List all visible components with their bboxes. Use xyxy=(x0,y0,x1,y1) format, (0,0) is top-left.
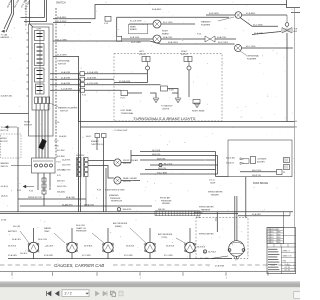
svg-text:40-B GRN: 40-B GRN xyxy=(209,13,219,15)
leader air front xyxy=(176,238,185,243)
svg-text:PRESSURE: PRESSURE xyxy=(110,198,121,200)
wire 40-B GRN into warning flasher xyxy=(206,14,235,16)
wire 43-C GRN diagonal xyxy=(240,18,278,27)
svg-text:30-A ORG: 30-A ORG xyxy=(12,238,21,241)
wire horizontal y21.5 xyxy=(24,21,47,23)
svg-text:4-6-B (4): 4-6-B (4) xyxy=(1,186,9,188)
page right border xyxy=(294,8,296,272)
wire into brake lamp 1 xyxy=(129,23,153,25)
svg-text:30A YEL: 30A YEL xyxy=(158,208,165,211)
svg-text:30-F BLK: 30-F BLK xyxy=(208,251,217,253)
leader oil xyxy=(92,233,104,243)
rear low air switch circle xyxy=(114,177,121,184)
svg-text:30-N BLK: 30-N BLK xyxy=(126,245,135,247)
svg-text:40-A RED: 40-A RED xyxy=(152,8,162,11)
wire into title block xyxy=(282,212,284,228)
svg-text:RIGHT REAR: RIGHT REAR xyxy=(192,110,205,113)
wire vertical x217 xyxy=(216,212,218,232)
svg-text:AIR PRESSURE: AIR PRESSURE xyxy=(158,233,173,236)
svg-text:FLASHER: FLASHER xyxy=(201,23,211,26)
svg-text:30-H ORG: 30-H ORG xyxy=(38,239,47,241)
console left edge pin stubs xyxy=(27,32,29,34)
connector P-MD box xyxy=(121,91,128,96)
wire 40-A RED to top bus xyxy=(53,5,287,19)
svg-text:40-A GRN: 40-A GRN xyxy=(61,82,71,85)
svg-text:WARNING: WARNING xyxy=(201,21,211,24)
svg-text:40-D GRN: 40-D GRN xyxy=(131,42,141,44)
svg-text:41-A GRN: 41-A GRN xyxy=(61,77,71,80)
solid black wedge xyxy=(39,139,47,150)
wire 37B-C BRN xyxy=(140,173,218,175)
gauge G1 circle xyxy=(28,242,38,252)
svg-text:CHART OIL: CHART OIL xyxy=(76,227,86,230)
svg-text:TURNSIGNAL: TURNSIGNAL xyxy=(246,55,260,58)
wire 340-C BLK xyxy=(240,171,277,173)
arrow glyph horn xyxy=(5,126,8,129)
svg-text:60-B 2: 60-B 2 xyxy=(86,136,91,138)
svg-text:WIPER: WIPER xyxy=(1,138,8,140)
connector P-14 boxes column xyxy=(80,72,85,76)
toolbar first-page button xyxy=(47,291,52,296)
wire into brake lamp 2 xyxy=(122,38,153,40)
svg-text:(REAR AIR: (REAR AIR xyxy=(109,194,119,197)
svg-text:47-B GRN: 47-B GRN xyxy=(44,255,53,257)
leader to warning flasher xyxy=(218,17,234,21)
svg-text:(REAR): (REAR) xyxy=(115,225,122,228)
svg-text:SWITCH: SWITCH xyxy=(56,2,66,5)
vertical x106 xyxy=(105,168,107,212)
connector boxes under relay xyxy=(42,178,46,182)
svg-text:BRG: BRG xyxy=(278,240,281,242)
svg-text:FLASHER: FLASHER xyxy=(247,57,257,60)
toolbar page box xyxy=(62,290,89,297)
wire right bus vertical xyxy=(286,33,288,122)
svg-text:WIPER MOTOR: WIPER MOTOR xyxy=(28,197,42,199)
gauge G4 wire from top xyxy=(149,228,151,242)
svg-text:TURNSIGNAL: TURNSIGNAL xyxy=(121,112,135,115)
wire speedo to bus xyxy=(236,256,238,258)
svg-text:30-K BLK: 30-K BLK xyxy=(20,253,28,255)
svg-text:SPEEDOMETER: SPEEDOMETER xyxy=(199,234,214,236)
svg-text:SENDER: SENDER xyxy=(162,203,171,205)
title block outer xyxy=(267,228,296,274)
svg-text:40-A ORG: 40-A ORG xyxy=(168,41,178,44)
svg-text:RIGHT: RIGHT xyxy=(181,51,188,53)
warning flasher circle xyxy=(235,12,242,19)
connector P-14 box on wire xyxy=(105,16,111,21)
wire to lamp box 3 xyxy=(85,84,161,86)
gauge G1 terminals xyxy=(28,243,30,245)
svg-text:SPEEDOMETER: SPEEDOMETER xyxy=(199,207,214,209)
accessory box xyxy=(228,140,292,177)
gauge G5 wire from top xyxy=(189,228,191,242)
wire right lamp down xyxy=(188,70,190,97)
title block middle band xyxy=(267,243,296,245)
wire 43-C ORG out xyxy=(242,47,294,49)
gauge feed bus y258.6 xyxy=(8,258,232,260)
svg-text:4 216324: 4 216324 xyxy=(268,237,274,239)
luggage buzzer box xyxy=(251,157,256,164)
connector sub-box 4 xyxy=(36,84,45,94)
wire 47-B RED out xyxy=(242,14,287,16)
bus wire y121.5 xyxy=(79,121,295,123)
turnsignal splice bowtie xyxy=(282,26,292,33)
svg-text:30-K (M): 30-K (M) xyxy=(13,226,20,228)
small boxes right edge xyxy=(284,158,290,163)
svg-text:340-C BLK: 340-C BLK xyxy=(252,170,262,172)
wire bundle verticals xyxy=(35,110,37,158)
wire out brake lamp 1 xyxy=(161,23,195,25)
gauge G5 inner xyxy=(188,245,193,250)
wire 40-B WHT xyxy=(53,22,91,24)
relay contacts xyxy=(35,164,38,167)
speedo terminal right xyxy=(242,249,245,252)
connector sub-box 3 xyxy=(35,68,45,82)
gauge G1 wire to feed bus xyxy=(33,253,35,259)
wire top right second xyxy=(291,11,300,13)
svg-text:41-D-B GRN: 41-D-B GRN xyxy=(130,21,142,23)
svg-text:HORN: HORN xyxy=(24,122,30,124)
connector column A xyxy=(77,158,82,162)
svg-text:RESERVOIR: RESERVOIR xyxy=(111,201,123,203)
bus wire y127 xyxy=(81,126,295,128)
speedo cable double line xyxy=(234,196,236,241)
svg-text:— TO HIGH LIGHT: — TO HIGH LIGHT xyxy=(112,130,128,132)
svg-text:FLASH SERVICE SUER: FLASH SERVICE SUER xyxy=(105,189,125,192)
ground symbol 2 xyxy=(175,98,181,103)
relay box xyxy=(32,158,56,173)
svg-text:P-23: P-23 xyxy=(29,191,33,193)
leader air rear xyxy=(130,228,146,243)
svg-text:40-B GRN: 40-B GRN xyxy=(130,37,140,39)
connector box small xyxy=(117,36,122,41)
connector P-14 splice X xyxy=(205,36,215,42)
gauge G3 wire from top xyxy=(107,228,109,242)
svg-text:47 (M): 47 (M) xyxy=(1,220,7,222)
vertical x131 xyxy=(130,150,132,163)
svg-text:BRAKE: BRAKE xyxy=(162,32,169,35)
bus wiper y199 xyxy=(18,198,86,200)
svg-text:41-B GRN: 41-B GRN xyxy=(57,55,67,57)
svg-text:HARNESS: HARNESS xyxy=(194,212,203,215)
title block right top cells xyxy=(282,228,284,244)
ground symbol 3 xyxy=(194,103,200,108)
svg-text:3M-B YEL: 3M-B YEL xyxy=(158,168,167,170)
svg-text:43-C ORG: 43-C ORG xyxy=(246,46,256,48)
connector boxes brake throttle xyxy=(95,134,100,138)
harness connector strip xyxy=(155,211,200,216)
svg-text:(TYPE): (TYPE) xyxy=(161,237,168,239)
svg-text:47-F GRN: 47-F GRN xyxy=(124,255,133,257)
svg-text:4-17-A GRN: 4-17-A GRN xyxy=(61,88,72,91)
toolbar gradient band xyxy=(0,282,300,288)
svg-text:ORIG.: ORIG. xyxy=(283,261,288,263)
node Y circle xyxy=(117,208,120,211)
wire horizontal y17.5 xyxy=(21,17,45,19)
gauge G4 inner xyxy=(148,245,153,250)
page bottom border xyxy=(0,270,296,272)
gauge G1 wire from top xyxy=(33,228,35,242)
wire group 47-A GRN xyxy=(50,89,80,91)
wire out brake lamp 2 xyxy=(161,38,205,40)
svg-text:4 216338: 4 216338 xyxy=(268,242,274,244)
svg-text:40-A ORG: 40-A ORG xyxy=(76,154,85,157)
connector arrows xyxy=(240,158,244,165)
svg-text:REAR: REAR xyxy=(130,25,136,28)
svg-text:LIGHTS: LIGHTS xyxy=(162,108,170,110)
svg-text:TEMP: TEMP xyxy=(44,231,50,233)
speedometer inner detail xyxy=(231,242,243,253)
svg-text:2000R: 2000R xyxy=(210,182,216,184)
svg-text:40-C BLK: 40-C BLK xyxy=(57,150,66,152)
svg-text:40-C ORG: 40-C ORG xyxy=(62,170,71,172)
svg-text:4 216317: 4 216317 xyxy=(268,234,274,236)
svg-text:P-27: P-27 xyxy=(55,141,59,143)
speedo terminal left xyxy=(228,249,231,252)
svg-text:D D & L: D D & L xyxy=(209,180,215,182)
right front lamp xyxy=(187,66,191,70)
wire stub y25.5 xyxy=(30,24,34,27)
svg-text:TO BACKUP: TO BACKUP xyxy=(161,105,173,108)
svg-text:LEFT: LEFT xyxy=(37,29,43,31)
svg-text:47-A GRN: 47-A GRN xyxy=(8,254,17,257)
turnsignal flasher circle xyxy=(235,45,242,52)
svg-text:64: 64 xyxy=(295,127,297,129)
wire 3M-B YEL 2 xyxy=(145,169,216,171)
svg-text:40-A RED: 40-A RED xyxy=(57,16,67,19)
stack right verticals xyxy=(216,152,229,177)
svg-text:30-I BLK: 30-I BLK xyxy=(46,245,54,247)
svg-text:60: 60 xyxy=(295,121,297,123)
svg-text:BRAKE 2: BRAKE 2 xyxy=(91,140,99,143)
svg-text:WHEEL : 27: WHEEL : 27 xyxy=(283,251,291,253)
arrow glyph left low xyxy=(23,185,26,188)
svg-text:30B-A YEL: 30B-A YEL xyxy=(123,208,132,211)
svg-text:SWITCH: SWITCH xyxy=(60,110,68,112)
svg-text:HARNESS: HARNESS xyxy=(1,36,10,39)
gauge G2 wire to feed bus xyxy=(71,253,73,259)
gauge G2 terminals xyxy=(67,243,69,245)
wire marker switch xyxy=(11,165,32,167)
svg-text:TO HORN: TO HORN xyxy=(1,127,10,129)
vertical x103.5 xyxy=(103,150,105,212)
front low air switch circle xyxy=(114,159,121,166)
svg-text:P-5R: P-5R xyxy=(169,90,174,92)
wire 3M-H YEL xyxy=(140,159,216,161)
border tick marks xyxy=(11,272,13,276)
svg-text:REAR LOW-AIR: REAR LOW-AIR xyxy=(123,177,137,180)
wire to lamp box 1 xyxy=(85,73,148,75)
wire left y113.5 xyxy=(0,113,29,115)
wire 20-C BLK xyxy=(140,151,216,153)
gauge G3 wire to feed bus xyxy=(107,253,109,259)
connector bottom terminal row xyxy=(35,97,38,104)
svg-text:SENDER: SENDER xyxy=(211,194,220,196)
svg-text:47-A RED: 47-A RED xyxy=(246,12,256,15)
connector pin bars xyxy=(37,33,43,35)
main bus y211.7 xyxy=(0,211,293,213)
gauge G3 inner xyxy=(106,245,111,250)
gauge G5 circle xyxy=(185,242,195,252)
svg-text:P-13: P-13 xyxy=(57,162,61,164)
toolbar prev-page button xyxy=(56,291,60,295)
toolbar snapshot icon xyxy=(111,291,115,295)
svg-text:47-L GRN: 47-L GRN xyxy=(164,255,173,257)
svg-text:BRG: BRG xyxy=(278,237,281,239)
svg-text:608-A (M): 608-A (M) xyxy=(57,191,65,194)
svg-text:40-A (M): 40-A (M) xyxy=(59,135,67,138)
svg-text:GAUGES, CARRIER CAB: GAUGES, CARRIER CAB xyxy=(54,263,104,268)
gauge G1 inner xyxy=(31,245,36,250)
svg-text:2 / 2: 2 / 2 xyxy=(65,292,72,296)
bus vertical x80.5 xyxy=(80,79,82,212)
svg-text:458 : 390: 458 : 390 xyxy=(285,267,291,269)
light switch console outer box xyxy=(29,24,54,136)
svg-text:BUTTON: BUTTON xyxy=(1,130,9,132)
svg-text:SWITCH: SWITCH xyxy=(1,166,9,168)
svg-text:40-A GRN: 40-A GRN xyxy=(61,71,71,74)
svg-text:LUGGAGE: LUGGAGE xyxy=(257,158,267,161)
svg-text:REFERENCE LIST: REFERENCE LIST xyxy=(268,229,280,231)
gauge G2 circle xyxy=(67,242,77,252)
svg-text:43-C GRN: 43-C GRN xyxy=(253,25,263,27)
svg-text:41-D GRN: 41-D GRN xyxy=(57,39,67,41)
svg-text:FRONT: FRONT xyxy=(181,54,189,56)
brake lamp circle 2 xyxy=(153,35,161,43)
wire to lamp box 2 xyxy=(85,78,115,80)
wire column B down xyxy=(85,177,87,207)
wire 4-N-A GRN xyxy=(114,70,148,83)
main bus y213.4 xyxy=(0,212,238,214)
wire group 40-4 GRN xyxy=(50,84,80,86)
wire 47-A GRN right xyxy=(238,215,290,217)
wire group 41-A GRN xyxy=(50,78,80,80)
svg-text:30-M BLK: 30-M BLK xyxy=(84,245,93,247)
svg-text:P-29: P-29 xyxy=(97,190,101,192)
svg-text:605-B ORG: 605-B ORG xyxy=(57,186,67,188)
svg-text:TURNSIGNAL: TURNSIGNAL xyxy=(57,60,71,63)
wire label 40-A RED on bus xyxy=(151,7,170,11)
node A circled xyxy=(203,250,206,253)
svg-text:SWITCH: SWITCH xyxy=(123,181,131,183)
svg-text:37B-C BRN: 37B-C BRN xyxy=(157,172,168,174)
svg-text:340-B (Y): 340-B (Y) xyxy=(226,163,234,165)
brake lamp circle 1 xyxy=(153,20,161,28)
wire 43-F GRN xyxy=(252,32,281,35)
svg-text:SPEEDOMETER: SPEEDOMETER xyxy=(208,192,223,194)
svg-text:608-ORG: 608-ORG xyxy=(57,181,65,183)
left bus vertical x18 xyxy=(17,127,19,212)
title block notes text xyxy=(268,248,277,250)
speedometer bottom tab xyxy=(234,256,240,259)
node theta connector xyxy=(285,23,289,27)
wire down right xyxy=(289,212,291,216)
left front lamp box xyxy=(142,57,150,62)
leader to flasher switch xyxy=(50,103,58,107)
arrow to harness left xyxy=(2,30,5,32)
wire vertical x29.5 xyxy=(29,0,31,24)
dashed bus right of console xyxy=(55,8,57,158)
svg-text:20-C BLK: 20-C BLK xyxy=(152,150,161,152)
svg-text:PRESSURE: PRESSURE xyxy=(76,231,87,233)
svg-text:30: 30 xyxy=(283,172,285,174)
gauge G4 wire to feed bus xyxy=(149,253,151,259)
svg-text:AIR PRESSURE: AIR PRESSURE xyxy=(113,222,128,225)
wire group 40-A GRN xyxy=(50,73,80,75)
wires to low air switches xyxy=(88,161,140,181)
svg-text:4 216331: 4 216331 xyxy=(268,240,274,242)
wires brake throttle xyxy=(97,138,104,151)
svg-text:40-C ORG: 40-C ORG xyxy=(163,22,173,24)
gauge G5 terminals xyxy=(185,243,187,245)
svg-text:RIGHT: RIGHT xyxy=(162,31,169,33)
svg-text:40-B ORG: 40-B ORG xyxy=(62,165,71,167)
svg-text:47-2 GRN: 47-2 GRN xyxy=(82,255,91,257)
connector sub-box 1 xyxy=(35,31,45,41)
bus 30A ORG y206 xyxy=(20,205,152,207)
svg-text:340-G (M): 340-G (M) xyxy=(226,158,235,160)
wire to lamp box 4 xyxy=(85,89,122,91)
svg-text:10-A BLK (M): 10-A BLK (M) xyxy=(1,95,13,98)
svg-text:60-A 4 (M): 60-A 4 (M) xyxy=(66,196,75,199)
wire 40-B GRN vertical from top xyxy=(4,0,12,29)
svg-text:TO CAB: TO CAB xyxy=(1,34,8,37)
svg-text:30-A/A ORG: 30-A/A ORG xyxy=(62,203,73,206)
svg-text:41-B WHT: 41-B WHT xyxy=(57,21,67,23)
svg-text:47-A GRN: 47-A GRN xyxy=(252,213,261,216)
gauge G2 wire from top xyxy=(71,228,73,242)
connector pin column xyxy=(39,31,41,94)
wire 41-D GRN to turnsignal flasher xyxy=(53,41,235,44)
svg-text:PRESSURE: PRESSURE xyxy=(161,200,172,202)
leader battery xyxy=(20,231,29,243)
connector sub-box 2 xyxy=(35,44,45,66)
wire top right corner xyxy=(287,0,300,8)
svg-text:43-D ORG: 43-D ORG xyxy=(218,42,228,44)
svg-text:SWITCH: SWITCH xyxy=(24,124,32,126)
svg-text:FRONT: FRONT xyxy=(139,54,147,56)
svg-text:340-B YEL: 340-B YEL xyxy=(252,175,261,177)
svg-text:MARKER: MARKER xyxy=(1,162,10,165)
left front lamp xyxy=(146,66,150,70)
svg-text:30-E BLK: 30-E BLK xyxy=(197,247,206,249)
svg-text:40-A ORG: 40-A ORG xyxy=(62,159,71,162)
brake lights enclosure top edge xyxy=(117,17,229,36)
svg-text:LEFT: LEFT xyxy=(139,51,145,53)
connector B-5R box xyxy=(161,86,168,91)
toolbar last-page button greyed xyxy=(103,291,107,296)
ground symbol 1 xyxy=(153,98,159,103)
svg-text:3MDA ORG: 3MDA ORG xyxy=(84,203,95,206)
right rear lamp box xyxy=(193,100,200,104)
svg-text:LEFT REAR: LEFT REAR xyxy=(121,109,133,112)
svg-text:BRG: BRG xyxy=(278,232,281,234)
connector column B xyxy=(84,158,89,162)
svg-text:3M-C BLK: 3M-C BLK xyxy=(164,163,173,165)
svg-text:WARNING FLASHER: WARNING FLASHER xyxy=(58,107,78,110)
speedometer circle xyxy=(229,241,245,257)
svg-text:30-R BLK: 30-R BLK xyxy=(166,245,175,247)
svg-text:SWITCH: SWITCH xyxy=(123,163,131,165)
wire from splice right xyxy=(215,38,236,40)
wire 40-A GRN vertical from top xyxy=(6,0,14,32)
svg-text:P-28: P-28 xyxy=(55,145,59,147)
wire vertical pair to switch xyxy=(45,0,47,22)
wire 3M-C BLK with node G xyxy=(150,164,218,166)
svg-text:30-E ORG: 30-E ORG xyxy=(76,225,85,227)
leader turnsignal flasher xyxy=(240,51,246,55)
gauge G4 circle xyxy=(145,242,155,252)
